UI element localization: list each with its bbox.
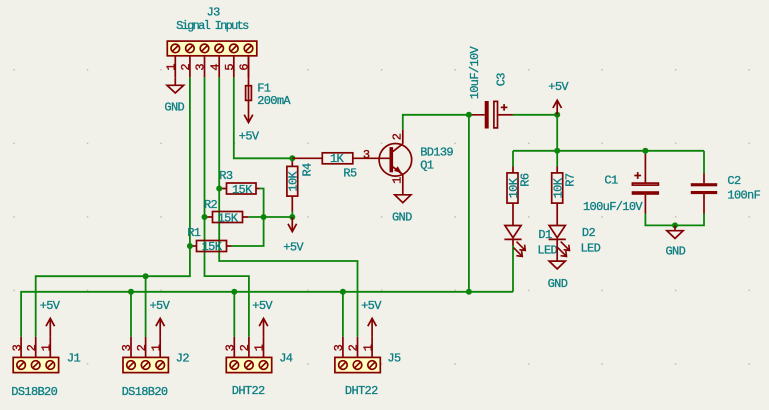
- svg-text:LED: LED: [537, 243, 557, 257]
- svg-text:GND: GND: [164, 100, 184, 114]
- svg-text:3: 3: [332, 344, 346, 351]
- node R4 top junction: [289, 155, 295, 161]
- power +5V (down) at R4: [288, 217, 297, 232]
- svg-text:1K: 1K: [330, 152, 345, 166]
- resistor R2: [206, 212, 249, 223]
- svg-text:6: 6: [238, 64, 252, 71]
- J5 screw terminal 2: [353, 361, 362, 370]
- wire caps bottom to GND: [645, 214, 704, 226]
- svg-text:15K: 15K: [232, 183, 253, 197]
- wire J4 pin3 drop: [233, 292, 235, 337]
- node R1 left junction: [187, 243, 193, 249]
- svg-text:+5V: +5V: [361, 299, 382, 313]
- svg-text:200mA: 200mA: [257, 94, 291, 108]
- svg-text:15K: 15K: [202, 240, 223, 254]
- J1 pin numbers: [10, 344, 53, 351]
- svg-text:1: 1: [253, 344, 267, 351]
- node R3 left junction: [216, 186, 222, 192]
- node caps GND junction: [672, 222, 678, 228]
- svg-text:J5: J5: [387, 352, 401, 366]
- capacitor C3: [469, 101, 513, 129]
- resistor R3: [220, 183, 259, 194]
- power +5V (up) at J1: [46, 318, 55, 337]
- wire R4 bottom stub: [291, 212, 293, 218]
- svg-text:100nF: 100nF: [727, 188, 760, 202]
- svg-text:3: 3: [363, 148, 370, 162]
- svg-text:1: 1: [40, 344, 54, 351]
- J3 screw terminal 4: [215, 44, 224, 53]
- svg-text:+5V: +5V: [239, 129, 260, 143]
- node C3 right junction: [554, 112, 560, 118]
- svg-text:2: 2: [238, 344, 252, 351]
- power +5V (up) at J4: [259, 318, 268, 337]
- svg-text:100uF/10V: 100uF/10V: [583, 200, 643, 214]
- svg-text:R1: R1: [187, 226, 201, 240]
- wire C2 top stub: [703, 151, 705, 174]
- wire J2 pin3 drop: [130, 292, 132, 337]
- fuse F1: [246, 56, 252, 101]
- J1 screw terminal 2: [31, 361, 40, 370]
- grid dots: [13, 69, 750, 365]
- svg-text:5: 5: [223, 64, 237, 71]
- power +5V (up) at C3: [553, 100, 562, 115]
- svg-text:15K: 15K: [218, 211, 239, 225]
- wire J3 pin5 net to R4 top: [234, 77, 292, 158]
- J4 pin leads: [234, 337, 263, 358]
- wire R2 right to +5V node: [248, 216, 292, 218]
- svg-text:+5V: +5V: [548, 80, 569, 94]
- svg-text:4: 4: [208, 64, 222, 71]
- svg-text:F1: F1: [257, 81, 271, 95]
- svg-text:J3: J3: [207, 6, 221, 20]
- resistor R4: [287, 158, 298, 211]
- wire Q1 collector to node: [403, 115, 469, 130]
- resistor R6: [507, 167, 518, 226]
- J5 screw terminal 1: [368, 361, 377, 370]
- svg-text:R3: R3: [219, 169, 233, 183]
- wire J3 pin4 net to J5 pin2: [219, 77, 357, 337]
- wire R6 top stub: [512, 151, 514, 167]
- svg-text:Signal Inputs: Signal Inputs: [176, 19, 249, 33]
- J2 screw terminal 3: [127, 361, 136, 370]
- capacitor C2: [691, 174, 717, 214]
- J2 screw terminal 1: [156, 361, 165, 370]
- svg-text:2: 2: [135, 344, 149, 351]
- J1 screw terminal 3: [17, 361, 26, 370]
- svg-text:GND: GND: [548, 277, 568, 291]
- svg-text:C1: C1: [604, 174, 618, 188]
- wire +5V rail right: [513, 150, 704, 152]
- svg-text:+5V: +5V: [252, 299, 273, 313]
- svg-text:J1: J1: [67, 352, 81, 366]
- svg-text:J2: J2: [176, 352, 190, 366]
- ground symbol at C1/C2: [667, 225, 683, 238]
- node R2 left junction: [202, 214, 208, 220]
- svg-text:10K: 10K: [551, 177, 565, 198]
- wire R1/R3 right to +5V node: [232, 189, 264, 247]
- wire J3 pin3 net to J4 pin2: [205, 77, 249, 337]
- ground symbol at D2: [549, 261, 565, 269]
- svg-text:+5V: +5V: [150, 299, 171, 313]
- J4 screw terminal 2: [245, 361, 254, 370]
- svg-text:DS18B20: DS18B20: [11, 385, 57, 399]
- capacitor C1: [632, 154, 659, 214]
- svg-text:R4: R4: [301, 163, 315, 177]
- svg-text:3: 3: [194, 64, 208, 71]
- svg-text:R2: R2: [204, 198, 218, 212]
- svg-text:DHT22: DHT22: [345, 384, 378, 398]
- J4 screw terminal 1: [259, 361, 268, 370]
- wire C3 plus to +5V: [513, 115, 557, 151]
- wire R7 top stub: [556, 151, 558, 167]
- wire J2 pin2 drop: [145, 276, 147, 337]
- connector J5 body: [335, 357, 380, 372]
- J3 pin numbers: [165, 64, 252, 71]
- J3 screw terminal 5: [230, 44, 239, 53]
- J2 screw terminal 2: [141, 361, 150, 370]
- svg-text:GND: GND: [666, 245, 686, 259]
- node C3 left junction: [466, 112, 472, 118]
- resistor R1: [191, 241, 232, 252]
- svg-text:2: 2: [25, 344, 39, 351]
- svg-text:+5V: +5V: [283, 240, 304, 254]
- svg-text:1: 1: [165, 64, 179, 71]
- J5 pin numbers: [332, 344, 375, 351]
- ground symbol at J3 pin1: [167, 77, 184, 93]
- power +5V (up) at J5: [368, 318, 377, 337]
- node bus junctions: [143, 273, 149, 279]
- svg-text:10uF/10V: 10uF/10V: [468, 45, 482, 99]
- node +5V rail C1 junction: [642, 148, 648, 154]
- svg-text:3: 3: [120, 344, 134, 351]
- svg-text:DS18B20: DS18B20: [122, 385, 168, 399]
- J3 pin leads: [175, 56, 248, 78]
- transistor Q1: [379, 130, 412, 195]
- svg-text:DHT22: DHT22: [232, 384, 265, 398]
- svg-text:R5: R5: [343, 167, 357, 181]
- wire collector riser: [468, 115, 470, 292]
- LED D1: [504, 226, 525, 257]
- J3 screw terminal 1: [171, 44, 180, 53]
- svg-text:10K: 10K: [286, 170, 300, 191]
- resistor R7: [552, 167, 563, 226]
- J2 pin numbers: [120, 344, 163, 351]
- wire bus bottom: [21, 292, 513, 337]
- wire J5 pin3 drop: [342, 292, 344, 337]
- svg-text:2: 2: [390, 133, 404, 140]
- J5 pin leads: [343, 337, 372, 358]
- wire C1 top stub: [644, 151, 646, 154]
- J3 screw terminal 2: [186, 44, 195, 53]
- svg-text:J4: J4: [279, 352, 293, 366]
- svg-text:R7: R7: [564, 173, 578, 187]
- svg-text:2: 2: [179, 64, 193, 71]
- svg-text:3: 3: [224, 344, 238, 351]
- J1 pin leads: [21, 337, 50, 358]
- svg-text:D2: D2: [582, 226, 596, 240]
- J2 pin leads: [131, 337, 160, 358]
- svg-text:1: 1: [149, 344, 163, 351]
- ground symbol at Q1 emitter: [395, 195, 411, 203]
- svg-text:BD139: BD139: [420, 145, 453, 159]
- svg-text:1: 1: [361, 344, 375, 351]
- svg-text:Q1: Q1: [420, 159, 434, 173]
- node R4 bottom junction: [289, 214, 295, 220]
- connector J4 body: [226, 357, 271, 372]
- node R1/R3 right junction: [261, 214, 267, 220]
- J1 screw terminal 1: [46, 361, 55, 370]
- LED D2: [549, 226, 570, 262]
- wire J3 pin2 net to J1/J2 pin2: [36, 77, 190, 337]
- svg-text:GND: GND: [392, 211, 412, 225]
- svg-text:LED: LED: [581, 241, 601, 255]
- J5 screw terminal 3: [339, 361, 348, 370]
- svg-text:2: 2: [347, 344, 361, 351]
- connector J1 body: [13, 357, 58, 372]
- J3 screw terminal 6: [244, 44, 253, 53]
- connector J2 body: [123, 357, 168, 372]
- resistor R5: [292, 153, 390, 164]
- svg-text:C2: C2: [727, 174, 741, 188]
- J4 screw terminal 3: [230, 361, 239, 370]
- svg-text:3: 3: [10, 344, 24, 351]
- svg-text:1: 1: [390, 177, 404, 184]
- wire D1 cathode riser: [512, 246, 514, 292]
- power +5V (down) below F1: [244, 100, 253, 122]
- node +5V rail R7 junction: [554, 148, 560, 154]
- svg-text:10K: 10K: [507, 177, 521, 198]
- svg-text:C3: C3: [495, 73, 509, 87]
- connector J3 body: [167, 41, 256, 56]
- power +5V (up) at J2: [156, 318, 165, 337]
- J3 screw terminal 3: [200, 44, 209, 53]
- svg-text:+5V: +5V: [40, 299, 61, 313]
- J4 pin numbers: [224, 344, 267, 351]
